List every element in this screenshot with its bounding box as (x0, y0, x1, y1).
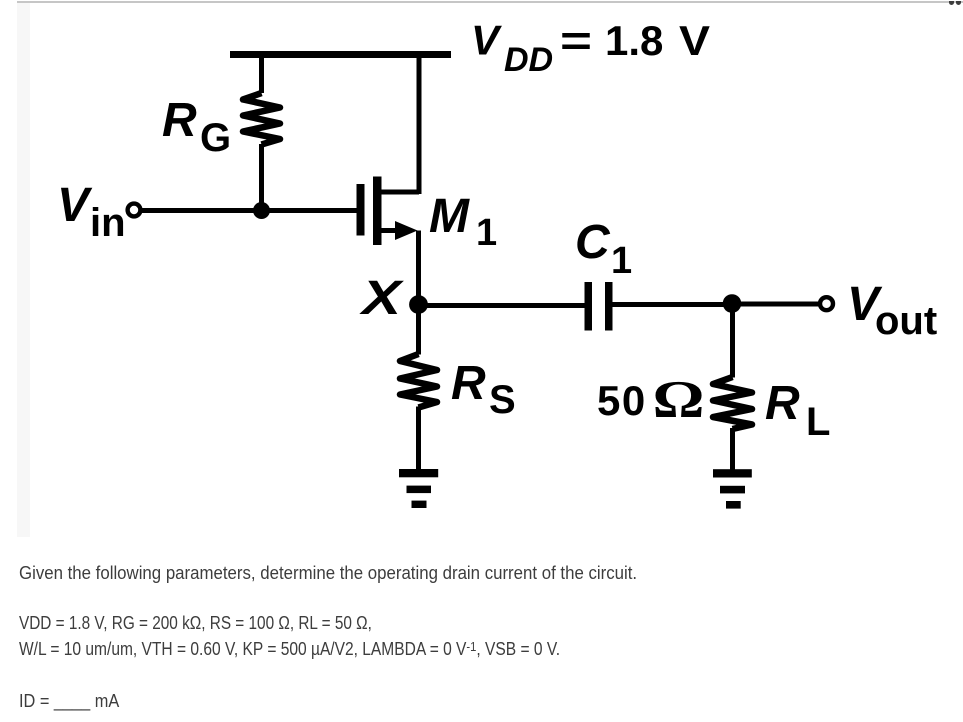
svg-text:DD: DD (504, 41, 553, 79)
ground under RL (713, 469, 752, 508)
wire rail to RG top (259, 57, 264, 93)
svg-text:M: M (429, 190, 470, 243)
label RL (765, 377, 830, 444)
svg-text:V: V (471, 17, 502, 64)
wire Vin to gate (140, 208, 357, 213)
svg-text:C: C (575, 216, 611, 269)
resistor RL zigzag (713, 377, 752, 429)
M1 gate bar (357, 184, 365, 236)
label RS (451, 357, 516, 422)
svg-text:G: G (200, 116, 231, 160)
resistor RS zigzag (400, 354, 437, 408)
capacitor C1 plates (585, 282, 613, 331)
svg-text:in: in (90, 201, 126, 245)
svg-text:=: = (560, 17, 592, 64)
svg-text:V: V (679, 17, 710, 64)
svg-text:X: X (358, 272, 404, 325)
top grey separator line (17, 1, 963, 3)
svg-text:L: L (806, 400, 830, 444)
svg-text:out: out (875, 299, 937, 343)
label Vout (847, 278, 937, 343)
node output junction dot (723, 294, 742, 313)
terminal Vout open circle (820, 297, 833, 310)
label M1 (429, 190, 497, 254)
svg-text:V: V (57, 179, 93, 232)
wire drain up to rail (417, 57, 422, 194)
ground under RS (399, 469, 438, 508)
M1 channel bar (373, 177, 382, 246)
wire node X down to RS (416, 305, 421, 355)
wire node X to C1 (419, 303, 586, 308)
left light grey margin band (17, 3, 30, 537)
svg-text:Ω: Ω (653, 371, 705, 429)
node gate junction dot (253, 202, 270, 219)
wire RG bottom to gate node (259, 144, 264, 211)
svg-text:R: R (451, 357, 486, 410)
svg-text:S: S (489, 378, 516, 422)
label Vin (57, 179, 126, 245)
label 50 ohm (597, 371, 705, 429)
VDD supply rail (230, 51, 451, 58)
wire RL to ground (730, 428, 735, 470)
svg-text:1.8: 1.8 (605, 17, 663, 64)
svg-text:1: 1 (611, 240, 632, 282)
transistor M1 (NMOS) (357, 177, 418, 246)
cropped dots top-right (949, 1, 954, 5)
svg-text:R: R (765, 377, 800, 430)
label VDD = 1.8 V (471, 17, 710, 80)
wire output node to Vout terminal (732, 302, 819, 307)
question text (19, 563, 637, 584)
M1 source arrow (395, 221, 418, 240)
wire drain horizontal (379, 190, 419, 195)
label C1 (575, 216, 632, 282)
terminal Vin open circle (128, 204, 141, 217)
svg-text:R: R (162, 94, 197, 147)
node X junction dot (409, 295, 428, 314)
label RG (162, 94, 231, 160)
wire RS to ground (416, 407, 421, 471)
wire source down to node X (416, 231, 421, 306)
resistor RG zigzag (243, 93, 280, 145)
wire output node down to RL (730, 305, 735, 378)
svg-text:1: 1 (476, 212, 497, 254)
wire C1 to output node (612, 302, 732, 307)
wire source stub (379, 228, 400, 233)
svg-text:50: 50 (597, 377, 647, 424)
